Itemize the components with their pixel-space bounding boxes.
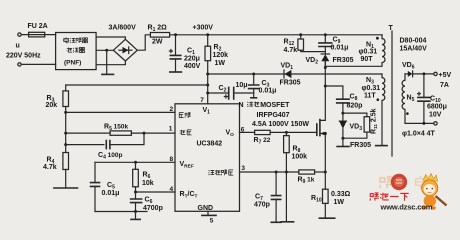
capacitor C7 470p xyxy=(275,172,277,195)
svg-text:IRFPG407: IRFPG407 xyxy=(257,112,290,119)
ground bar (VD3/R11) xyxy=(337,146,349,148)
svg-text:FR305: FR305 xyxy=(280,80,301,87)
+5V output terminal xyxy=(434,72,437,75)
ground bar (C7) xyxy=(271,221,281,223)
svg-text:2: 2 xyxy=(170,106,174,113)
svg-text:(PNF): (PNF) xyxy=(64,60,81,67)
resistor R8 100k xyxy=(285,132,287,135)
svg-text:0.01μ: 0.01μ xyxy=(259,88,277,95)
wire bottom AC xyxy=(21,63,55,65)
svg-text:20k: 20k xyxy=(46,102,58,109)
node Vcc / divider tap xyxy=(206,84,209,87)
node R12 top xyxy=(299,33,302,36)
resistor R1 2ohm 2W xyxy=(150,33,169,38)
node R5/C4 junction xyxy=(143,132,146,135)
svg-text:400V: 400V xyxy=(184,63,201,70)
capacitor C1 220u 400V xyxy=(175,35,177,55)
svg-text:90T: 90T xyxy=(361,56,374,63)
capacitor C3 0.01u xyxy=(253,74,255,85)
svg-text:+5V: +5V xyxy=(439,72,452,79)
node divider / pin2 tap xyxy=(64,111,67,114)
capacitor C10 6800u 10V xyxy=(423,74,425,97)
node C1 top xyxy=(174,33,177,36)
svg-text:T: T xyxy=(389,25,394,32)
wire bridge plus up to R1 xyxy=(137,35,150,50)
ground bar (R8) xyxy=(281,221,293,223)
node C3 top xyxy=(252,73,255,76)
capacitor C4 100p xyxy=(66,144,104,146)
power noise filter box PNF xyxy=(56,33,97,70)
phase dot N1 xyxy=(376,37,379,40)
svg-text:3: 3 xyxy=(241,165,245,172)
wire to divider xyxy=(66,84,208,86)
transistor Q1 MOSFET symbol xyxy=(316,124,318,135)
svg-text:6800μ: 6800μ xyxy=(427,104,447,111)
svg-text:φ0.31: φ0.31 xyxy=(362,85,381,92)
diode VD2 FR305 (clamp) xyxy=(324,52,326,54)
transformer core line xyxy=(391,31,393,156)
svg-text:D80-004: D80-004 xyxy=(400,38,427,45)
svg-text:15A/40V: 15A/40V xyxy=(400,46,428,53)
node snubber tap on drain rail xyxy=(324,85,327,88)
svg-text:220V 50Hz: 220V 50Hz xyxy=(6,53,41,60)
pin 8 VREF wire xyxy=(95,161,175,163)
svg-text:1: 1 xyxy=(169,126,173,133)
svg-text:1W: 1W xyxy=(215,60,226,67)
svg-text:10V: 10V xyxy=(429,112,442,119)
node source junction xyxy=(324,132,327,135)
node divider / R5 tap xyxy=(64,132,67,135)
ground bar (C1) xyxy=(170,71,182,73)
svg-text:10k: 10k xyxy=(142,180,154,187)
secondary winding N5 4T xyxy=(404,74,406,80)
svg-text:GND: GND xyxy=(198,205,214,212)
node R8/pin3 junction xyxy=(285,171,288,174)
node C10 bottom junction xyxy=(422,122,425,125)
node C9 top xyxy=(324,33,327,36)
node VREF / R6 tap xyxy=(134,161,137,164)
transformer aux winding N3 11T xyxy=(381,74,383,78)
ground bar (R10) xyxy=(319,217,334,219)
Vcc vertical rail to pin 7 xyxy=(207,74,209,104)
node C7/pin3 junction xyxy=(275,171,278,174)
resistor R4 4.7k xyxy=(63,153,69,170)
ground bar (N3) xyxy=(376,145,387,147)
node C8/VD3/R11 junction xyxy=(341,112,344,115)
resistor R6 10k xyxy=(135,162,137,169)
transformer T primary N1 90T xyxy=(381,35,383,39)
wire PNF middle to bridge left vertex xyxy=(96,49,113,51)
svg-text:MOSFET: MOSFET xyxy=(260,102,290,109)
resistor R9 1k xyxy=(299,170,315,174)
pin 4 RT/CT wire xyxy=(136,191,176,193)
svg-text:2W: 2W xyxy=(152,39,163,46)
phase dot N3 xyxy=(377,98,380,101)
diode VD1 FR305 xyxy=(283,70,285,78)
node R2 bottom xyxy=(206,73,209,76)
divider rail + resistor R3 20k xyxy=(65,85,67,91)
+300V rail xyxy=(170,34,382,36)
svg-text:FU 2A: FU 2A xyxy=(28,23,48,30)
source rail + resistor R10 0.33 1W xyxy=(324,134,326,190)
ground bar (bridge minus) xyxy=(102,73,114,75)
svg-text:0.01μ: 0.01μ xyxy=(331,45,349,52)
svg-text:FR305: FR305 xyxy=(350,142,371,149)
node R9/source rail junction xyxy=(324,171,327,174)
node N1 bottom / drain rail xyxy=(324,66,327,69)
capacitor C5 0.01u xyxy=(94,162,96,182)
node C10 top junction xyxy=(422,72,425,75)
svg-text:FR305: FR305 xyxy=(333,57,354,64)
IC U1 UC3842 box xyxy=(175,104,240,212)
svg-text:UC3842: UC3842 xyxy=(197,141,223,148)
svg-text:220μ: 220μ xyxy=(184,56,200,63)
diode VD3 / resistor R11 loop xyxy=(343,113,367,117)
pin 1 comp wire + resistor R5 150k xyxy=(66,132,110,134)
ground bar (C5/C6) xyxy=(131,218,140,220)
svg-text:820p: 820p xyxy=(347,103,363,110)
ground bar (R4) xyxy=(54,187,78,189)
wire PNF bottom to bridge bottom vertex xyxy=(96,61,125,65)
Vcc wire (VD1 row) xyxy=(208,73,382,75)
svg-text:4.7k: 4.7k xyxy=(43,164,57,171)
node gate/R8 junction xyxy=(285,131,288,134)
node R2 top xyxy=(206,33,209,36)
AC input terminal bottom xyxy=(18,63,21,66)
svg-text:100k: 100k xyxy=(292,154,308,161)
svg-text:10μ: 10μ xyxy=(236,82,248,89)
svg-text:N: N xyxy=(239,102,244,109)
pin 6 gate drive + resistor R7 22 xyxy=(240,131,255,133)
capacitor C9 0.01u (clamp) xyxy=(324,35,326,43)
drain rail xyxy=(324,61,326,120)
node middle/ground tap xyxy=(105,49,108,52)
AC input terminal top xyxy=(18,33,21,36)
svg-text:11T: 11T xyxy=(364,93,376,100)
svg-text:www.dzsc.com: www.dzsc.com xyxy=(380,202,433,211)
svg-text:470p: 470p xyxy=(254,202,270,209)
phase dot N5 xyxy=(406,112,409,115)
svg-text:1W: 1W xyxy=(334,199,345,206)
svg-text:7: 7 xyxy=(200,97,204,104)
GND pin 5 ground xyxy=(207,211,209,215)
svg-text:+300V: +300V xyxy=(193,25,214,32)
resistor R2 120k 1W xyxy=(207,35,209,46)
svg-text:120k: 120k xyxy=(213,52,229,59)
wire PNF to bridge top xyxy=(96,37,125,39)
svg-text:7A: 7A xyxy=(440,82,449,89)
svg-text:0.01μ: 0.01μ xyxy=(102,190,120,197)
watermark logo dzsc xyxy=(380,174,446,210)
svg-text:φ0.31: φ0.31 xyxy=(359,49,378,56)
resistor R12 4.7k (clamp) xyxy=(300,35,302,39)
node divider / C4 tap xyxy=(64,143,67,146)
local ground rail xyxy=(95,211,147,213)
svg-text:4.5A 1000V 150W: 4.5A 1000V 150W xyxy=(252,121,309,128)
node VD3/R11 bottom junction xyxy=(341,137,344,140)
svg-text:φ1.0×4 4T: φ1.0×4 4T xyxy=(402,130,436,137)
capacitor C2 10u xyxy=(208,92,229,94)
svg-text:4.7k: 4.7k xyxy=(284,47,298,54)
svg-text:u: u xyxy=(16,43,20,50)
node local ground junction xyxy=(134,210,137,213)
svg-text:5: 5 xyxy=(210,218,214,225)
svg-text:0.33Ω: 0.33Ω xyxy=(331,191,351,198)
output return terminal xyxy=(434,122,437,125)
polarity mark C10 xyxy=(418,92,421,95)
pin 2 feedback wire xyxy=(66,111,175,113)
node Vcc / C2 tap xyxy=(206,92,209,95)
svg-text:3A/600V: 3A/600V xyxy=(109,25,137,32)
capacitor C6 4700p xyxy=(135,192,137,199)
node R6/C6/pin4 junction xyxy=(134,191,137,194)
svg-text:R11 2.5k: R11 2.5k xyxy=(371,108,378,134)
pin 3 current sense wire xyxy=(240,171,299,173)
snubber branch C8 820p xyxy=(325,86,343,99)
wire down to primary ground xyxy=(106,50,108,74)
